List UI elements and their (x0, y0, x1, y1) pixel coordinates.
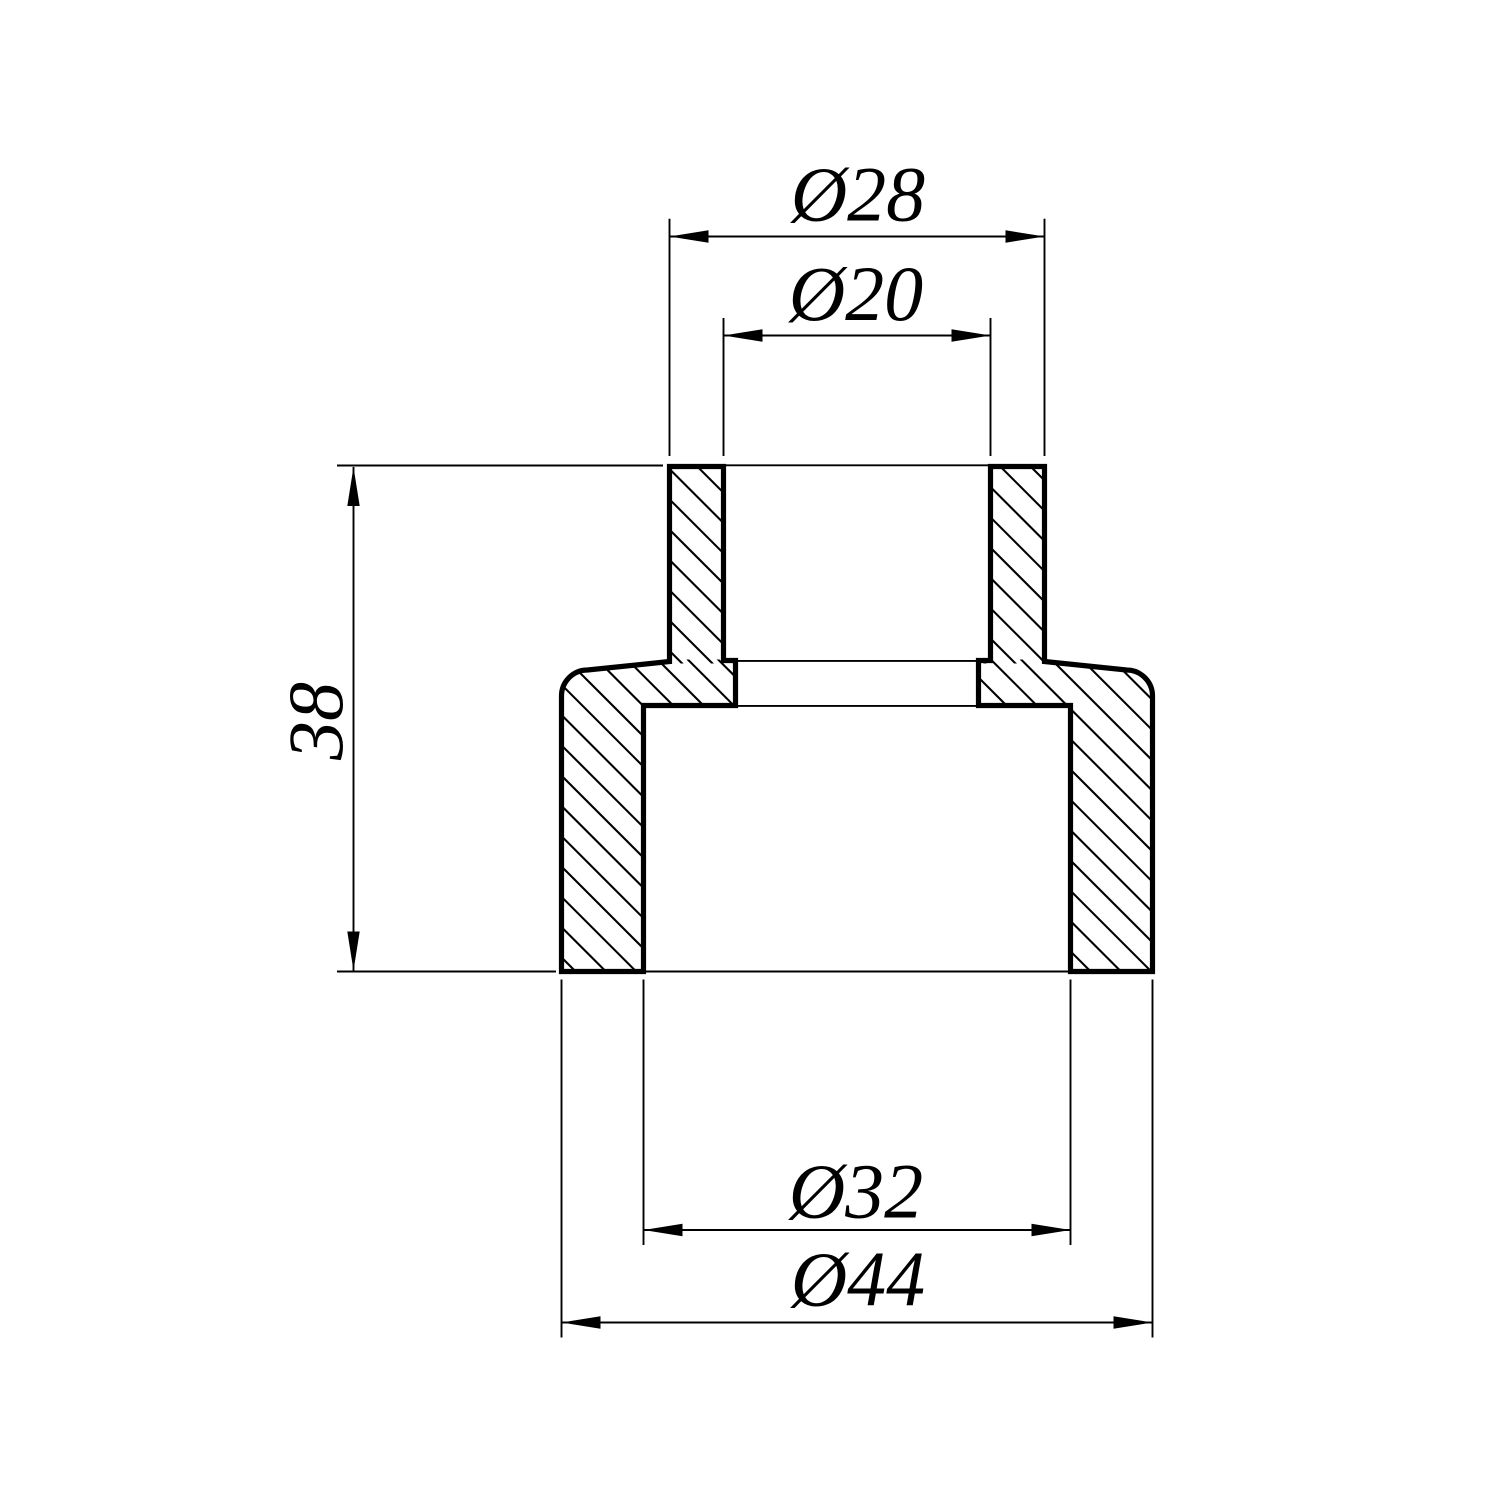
arrow O20 left (724, 329, 763, 341)
arrow 38 bottom (347, 932, 359, 971)
dim O44 extension line right (1152, 980, 1154, 1338)
dim O32 line (644, 1229, 1071, 1231)
dim O32 extension line left (643, 980, 645, 1246)
dim O28 extension line left (669, 219, 671, 456)
hatching right upper (540, 0, 1170, 1505)
dim O20 line (724, 335, 991, 337)
dim O44 extension line left (561, 980, 563, 1338)
svg-text:Ø44: Ø44 (790, 1236, 925, 1323)
right section wall (979, 467, 1153, 972)
dim 38 line (353, 467, 355, 971)
svg-text:Ø28: Ø28 (790, 151, 925, 238)
arrow O44 right (1114, 1316, 1153, 1328)
arrow O28 right (1006, 230, 1045, 242)
hatching left upper (540, 0, 1170, 1505)
arrow O32 left (644, 1224, 683, 1236)
dim O28 line (670, 236, 1045, 238)
dim O32 extension line right (1070, 980, 1072, 1246)
arrow O44 left (562, 1316, 601, 1328)
svg-text:38: 38 (272, 682, 359, 761)
thin edge bottom opening (644, 971, 1071, 973)
dim O20 extension line left (723, 318, 725, 456)
svg-text:Ø20: Ø20 (788, 250, 923, 337)
dim O20 extension line right (990, 318, 992, 456)
arrow O28 left (670, 230, 709, 242)
arrow O20 right (952, 329, 991, 341)
hatching left lower (540, 0, 1170, 1505)
svg-text:Ø32: Ø32 (788, 1148, 923, 1235)
thin edge socket bottom (736, 660, 979, 662)
hatching right lower (540, 0, 1170, 1505)
arrow O32 right (1032, 1224, 1071, 1236)
dim O28 extension line right (1044, 219, 1046, 456)
arrow 38 top (347, 467, 359, 506)
thin edge top bore (724, 464, 991, 466)
dim 38 extension line bottom (337, 971, 556, 973)
left section wall (562, 467, 736, 972)
thin edge cavity ceiling (736, 705, 979, 707)
dim O44 line (562, 1322, 1153, 1324)
dim 38 extension line top (337, 465, 663, 467)
